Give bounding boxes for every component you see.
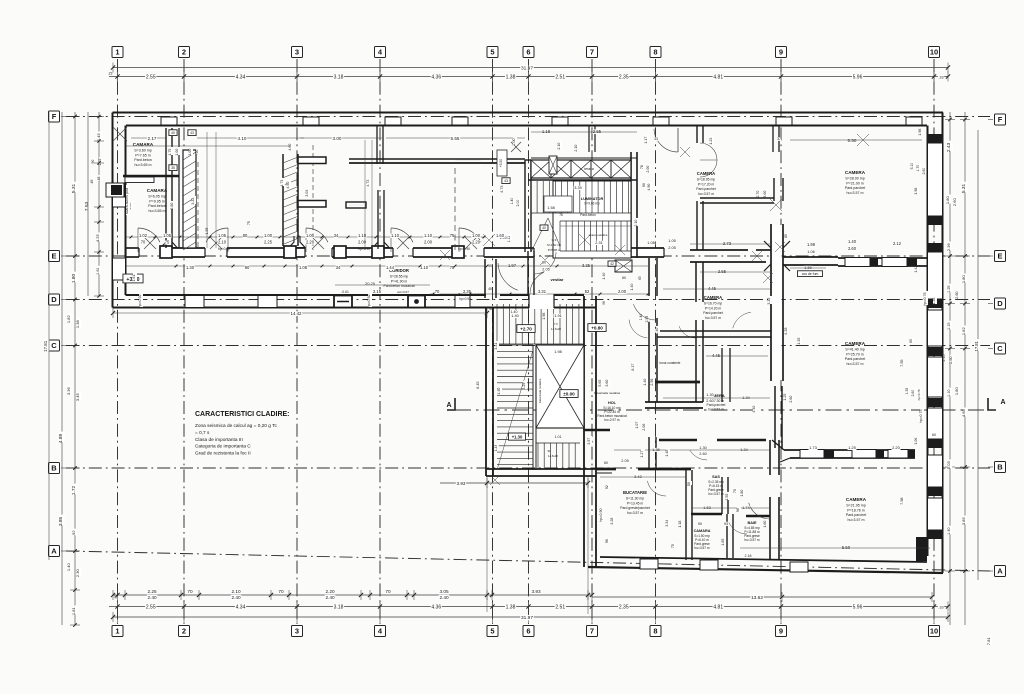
svg-text:2.60: 2.60 [949, 356, 953, 363]
svg-text:-0.61: -0.61 [341, 290, 349, 294]
svg-text:2.00: 2.00 [618, 289, 627, 294]
svg-text:1.17: 1.17 [644, 137, 648, 144]
svg-text:1.15: 1.15 [947, 322, 951, 329]
svg-text:Pard.parchet: Pard.parchet [845, 357, 866, 361]
svg-text:2.15: 2.15 [373, 289, 382, 294]
svg-text:2.20: 2.20 [892, 445, 901, 450]
svg-text:1.40: 1.40 [630, 284, 634, 291]
svg-text:2.25: 2.25 [264, 240, 273, 245]
svg-text:P=13.45 m: P=13.45 m [627, 501, 644, 505]
svg-text:hp=0.90: hp=0.90 [458, 247, 470, 251]
svg-text:1.75: 1.75 [168, 149, 172, 156]
svg-text:3.00: 3.00 [763, 191, 767, 198]
svg-text:2: 2 [182, 627, 186, 636]
svg-text:1.82: 1.82 [66, 315, 71, 324]
svg-text:2.10: 2.10 [557, 143, 561, 150]
svg-text:C: C [51, 341, 57, 350]
svg-text:.90: .90 [195, 150, 199, 155]
svg-text:1.70: 1.70 [916, 165, 920, 172]
svg-text:hu=3.57 m: hu=3.57 m [627, 511, 643, 515]
svg-text:.90: .90 [91, 160, 95, 165]
svg-text:2.20: 2.20 [306, 240, 315, 245]
svg-text:2.31: 2.31 [595, 241, 602, 245]
svg-text:5: 5 [490, 627, 494, 636]
svg-text:+0.80: +0.80 [591, 326, 603, 331]
svg-text:.92: .92 [71, 530, 76, 536]
svg-text:10: 10 [930, 48, 938, 57]
svg-text:31.97: 31.97 [521, 615, 533, 621]
svg-text:1.60: 1.60 [496, 233, 505, 238]
svg-text:Pard.beton: Pard.beton [134, 158, 152, 162]
svg-text:hp=0.90: hp=0.90 [358, 247, 370, 251]
svg-text:2.20: 2.20 [472, 240, 481, 245]
svg-text:1.55: 1.55 [725, 494, 729, 501]
svg-text:cos de fum: cos de fum [802, 272, 819, 276]
svg-text:80: 80 [245, 265, 250, 270]
svg-text:33: 33 [654, 137, 658, 141]
svg-text:1: 1 [115, 48, 119, 57]
svg-text:5: 5 [490, 48, 494, 57]
svg-text:1.40: 1.40 [511, 310, 518, 314]
svg-text:2.51: 2.51 [555, 74, 565, 80]
svg-text:±0.00: ±0.00 [563, 392, 575, 397]
svg-text:31.97: 31.97 [521, 66, 533, 72]
svg-text:3.57: 3.57 [587, 438, 591, 445]
svg-text:balustrada metalica: balustrada metalica [594, 391, 620, 395]
svg-text:3.29: 3.29 [522, 383, 526, 390]
svg-text:A: A [1000, 399, 1005, 406]
svg-text:1.80: 1.80 [961, 275, 966, 284]
svg-text:3.42: 3.42 [634, 474, 643, 479]
svg-text:1.38: 1.38 [506, 604, 516, 610]
svg-text:Pard.parchet: Pard.parchet [845, 186, 866, 190]
svg-text:3.39: 3.39 [574, 186, 581, 190]
svg-text:2.05: 2.05 [621, 459, 628, 463]
svg-text:A: A [446, 402, 451, 409]
svg-text:75: 75 [247, 221, 251, 225]
svg-text:3.85: 3.85 [58, 516, 64, 526]
svg-text:1.80: 1.80 [740, 490, 744, 497]
svg-text:3.33: 3.33 [191, 198, 195, 205]
svg-text:1.06: 1.06 [914, 438, 918, 445]
svg-text:hp=0.78: hp=0.78 [917, 389, 921, 400]
svg-text:P=5.08 m: P=5.08 m [548, 248, 561, 252]
svg-text:2.12: 2.12 [893, 241, 902, 246]
svg-text:1.02: 1.02 [139, 233, 148, 238]
svg-text:1.80: 1.80 [945, 196, 950, 205]
svg-text:3.35: 3.35 [767, 298, 771, 305]
svg-text:1.61: 1.61 [132, 275, 136, 282]
svg-text:5.50: 5.50 [842, 545, 851, 550]
svg-text:4.81: 4.81 [713, 604, 723, 610]
svg-text:40: 40 [542, 226, 546, 230]
svg-text:P=18.76 m: P=18.76 m [847, 508, 864, 512]
svg-text:4.33: 4.33 [784, 327, 788, 334]
svg-text:hp=0.92: hp=0.92 [459, 297, 471, 301]
svg-text:2.60: 2.60 [699, 452, 706, 456]
svg-text:1.18: 1.18 [678, 521, 682, 528]
svg-text:70: 70 [141, 240, 146, 245]
svg-text:9: 9 [779, 48, 783, 57]
svg-text:75: 75 [165, 240, 170, 245]
svg-text:3.28: 3.28 [610, 518, 614, 525]
svg-text:14.6x30: 14.6x30 [548, 454, 558, 458]
svg-text:S=11.30 mp: S=11.30 mp [626, 497, 644, 501]
svg-text:1.10: 1.10 [391, 233, 400, 238]
svg-text:1.10: 1.10 [424, 233, 433, 238]
svg-text:70: 70 [278, 589, 284, 594]
svg-text:CAMERA: CAMERA [704, 295, 722, 300]
svg-text:vestiar: vestiar [551, 277, 564, 282]
svg-text:+3.50: +3.50 [499, 159, 503, 168]
svg-text:17.81: 17.81 [974, 340, 979, 351]
svg-text:7 tr: 7 tr [554, 322, 558, 326]
svg-text:5.10: 5.10 [910, 163, 914, 170]
svg-text:2.40: 2.40 [147, 595, 157, 600]
svg-text:1.40: 1.40 [848, 239, 857, 244]
svg-text:85: 85 [784, 234, 788, 238]
svg-text:80: 80 [243, 233, 248, 238]
svg-text:Pard.gresie/parchet: Pard.gresie/parchet [620, 506, 650, 510]
svg-text:4.60: 4.60 [288, 144, 292, 151]
svg-text:1.11: 1.11 [507, 236, 511, 242]
svg-text:1.40: 1.40 [643, 379, 647, 386]
svg-text:37: 37 [777, 137, 781, 141]
svg-text:Grad de rezistenta la foc II: Grad de rezistenta la foc II [195, 451, 251, 457]
svg-text:34: 34 [334, 233, 339, 238]
svg-text:70: 70 [385, 589, 391, 594]
svg-text:4.90: 4.90 [647, 184, 651, 191]
svg-text:S=28.55 mp: S=28.55 mp [390, 275, 408, 279]
svg-text:2.55: 2.55 [718, 269, 727, 274]
svg-text:F: F [52, 112, 57, 121]
svg-text:Pard.beton: Pard.beton [148, 204, 166, 208]
svg-text:1.08: 1.08 [647, 241, 654, 245]
svg-text:.45: .45 [90, 180, 94, 185]
svg-text:1.40: 1.40 [497, 388, 501, 395]
svg-text:Pard.parchet: Pard.parchet [696, 187, 715, 191]
svg-text:4.50: 4.50 [286, 182, 290, 189]
svg-text:75: 75 [450, 233, 455, 238]
svg-text:2.25: 2.25 [147, 589, 157, 594]
svg-text:90: 90 [698, 522, 702, 526]
svg-text:1.30: 1.30 [699, 446, 706, 450]
svg-text:4.89: 4.89 [58, 433, 64, 443]
svg-text:.23: .23 [108, 72, 113, 76]
svg-text:7: 7 [590, 48, 594, 57]
svg-text:3.18: 3.18 [334, 604, 344, 610]
svg-text:1.25: 1.25 [947, 285, 951, 292]
svg-text:1.01: 1.01 [555, 435, 562, 439]
svg-text:2.60: 2.60 [789, 396, 793, 403]
svg-text:2.60: 2.60 [955, 291, 959, 298]
svg-text:2.60: 2.60 [952, 198, 957, 207]
svg-text:8: 8 [653, 48, 657, 57]
svg-text:13.62: 13.62 [751, 595, 763, 601]
svg-text:8.17: 8.17 [631, 364, 635, 371]
svg-text:7.55: 7.55 [900, 359, 904, 366]
svg-text:90: 90 [642, 183, 646, 187]
svg-text:BAIE: BAIE [747, 521, 757, 525]
svg-text:1.27: 1.27 [640, 451, 644, 458]
svg-text:E: E [997, 252, 1002, 261]
svg-text:2.36: 2.36 [946, 243, 951, 252]
svg-text:3: 3 [295, 48, 299, 57]
svg-text:CAMERA: CAMERA [845, 341, 866, 346]
svg-text:S=6.05 mp: S=6.05 mp [148, 195, 165, 199]
svg-text:7.53: 7.53 [84, 201, 90, 211]
svg-text:4.40: 4.40 [752, 406, 756, 413]
svg-text:3.93: 3.93 [531, 589, 541, 594]
svg-text:60: 60 [622, 276, 626, 280]
svg-text:G:9: G:9 [552, 238, 557, 242]
svg-text:70: 70 [733, 489, 737, 493]
svg-text:4.36: 4.36 [431, 74, 441, 80]
svg-text:2.55: 2.55 [593, 129, 602, 134]
svg-text:3.45: 3.45 [75, 393, 80, 402]
svg-text:2.60: 2.60 [922, 168, 926, 175]
svg-text:6: 6 [526, 48, 530, 57]
svg-text:7: 7 [590, 627, 594, 636]
svg-text:1.06: 1.06 [807, 250, 814, 254]
svg-text:HOL: HOL [608, 401, 617, 405]
svg-text:S=3.60 mp: S=3.60 mp [134, 149, 151, 153]
svg-text:78: 78 [640, 165, 644, 169]
svg-text:5.96: 5.96 [853, 74, 863, 80]
svg-text:hp=0.90: hp=0.90 [599, 509, 603, 522]
svg-text:52: 52 [585, 289, 590, 294]
svg-text:hu=3.57 m: hu=3.57 m [846, 362, 863, 366]
svg-text:1.00: 1.00 [175, 149, 179, 156]
svg-text:terasa: terasa [584, 167, 594, 171]
svg-text:S=41.40 mp: S=41.40 mp [845, 348, 864, 352]
svg-text:P=9.95 m: P=9.95 m [149, 199, 164, 203]
svg-text:1.30: 1.30 [186, 265, 195, 270]
svg-text:2.70: 2.70 [756, 191, 760, 198]
svg-text:60: 60 [604, 461, 608, 465]
svg-text:S=18.95 mp: S=18.95 mp [697, 178, 715, 182]
svg-text:hu=3.57 m: hu=3.57 m [708, 492, 723, 496]
svg-text:1.25: 1.25 [783, 394, 787, 401]
svg-text:Pard.parchet: Pard.parchet [846, 513, 867, 517]
svg-text:1.91: 1.91 [554, 313, 562, 318]
svg-text:3.00: 3.00 [333, 136, 342, 141]
svg-text:3.60: 3.60 [605, 380, 609, 387]
svg-text:2.35: 2.35 [619, 74, 629, 80]
svg-text:3.85: 3.85 [961, 517, 966, 526]
svg-text:1.58: 1.58 [547, 206, 554, 210]
svg-text:1.81: 1.81 [71, 607, 76, 616]
svg-text:2.00: 2.00 [358, 240, 367, 245]
svg-text:90: 90 [547, 449, 551, 453]
svg-text:B: B [51, 464, 57, 473]
svg-text:3: 3 [295, 627, 299, 636]
svg-text:2.51: 2.51 [555, 604, 565, 610]
svg-text:35: 35 [171, 166, 175, 170]
svg-text:S=9.66 mp: S=9.66 mp [584, 202, 600, 206]
svg-text:3.93: 3.93 [457, 481, 466, 486]
svg-text:1.05: 1.05 [218, 233, 227, 238]
svg-text:1.07: 1.07 [635, 422, 639, 429]
svg-text:scara acces pod: scara acces pod [125, 188, 129, 214]
svg-text:hp=0.92: hp=0.92 [367, 295, 371, 308]
svg-text:hu=3.65 m: hu=3.65 m [134, 163, 151, 167]
svg-text:1.40: 1.40 [655, 328, 659, 335]
svg-text:P=7.65 m: P=7.65 m [135, 153, 150, 157]
svg-text:SAS: SAS [712, 475, 720, 479]
svg-text:1.00: 1.00 [188, 149, 192, 156]
svg-text:75: 75 [671, 544, 675, 548]
svg-text:4.25: 4.25 [95, 234, 100, 243]
svg-text:3.31: 3.31 [494, 343, 498, 350]
svg-text:9: 9 [779, 627, 783, 636]
svg-text:1.05: 1.05 [668, 238, 676, 243]
svg-text:CARACTERISTICI CLADIRE:: CARACTERISTICI CLADIRE: [195, 411, 290, 418]
svg-text:50: 50 [687, 482, 691, 486]
svg-text:10: 10 [930, 627, 938, 636]
svg-text:1.40: 1.40 [510, 198, 514, 205]
svg-text:60: 60 [932, 433, 936, 437]
svg-text:65: 65 [638, 276, 642, 280]
svg-text:1.23: 1.23 [709, 138, 713, 145]
svg-text:96: 96 [605, 539, 609, 543]
svg-text:+1.30: +1.30 [512, 434, 523, 439]
svg-text:4.36: 4.36 [431, 604, 441, 610]
svg-text:4.45: 4.45 [712, 353, 721, 358]
svg-text:hu=3.57 m: hu=3.57 m [744, 538, 759, 542]
svg-text:1.25: 1.25 [848, 445, 857, 450]
svg-text:P=25.70 m: P=25.70 m [846, 352, 863, 356]
svg-text:.33: .33 [938, 75, 943, 79]
svg-text:1.72: 1.72 [71, 485, 77, 495]
svg-text:1.82: 1.82 [961, 327, 966, 336]
svg-text:F: F [998, 115, 1003, 124]
svg-text:1: 1 [115, 627, 119, 636]
svg-text:Pard.beton: Pard.beton [580, 213, 596, 217]
svg-text:1.10: 1.10 [947, 389, 951, 396]
svg-text:CAMERA: CAMERA [846, 497, 867, 502]
svg-text:1.18: 1.18 [542, 129, 551, 134]
svg-text:2.30: 2.30 [75, 569, 80, 578]
svg-text:42: 42 [610, 262, 614, 266]
svg-text:1.60: 1.60 [763, 521, 767, 528]
svg-text:P=14.20 m: P=14.20 m [705, 306, 722, 310]
svg-text:1.00: 1.00 [512, 138, 516, 145]
svg-text:B: B [997, 463, 1003, 472]
svg-text:hu=3.57 m: hu=3.57 m [708, 407, 724, 411]
svg-text:3.18: 3.18 [334, 74, 344, 80]
svg-text:2.60: 2.60 [911, 390, 915, 397]
svg-text:4.73: 4.73 [500, 185, 504, 192]
svg-text:CAMERA: CAMERA [697, 171, 715, 176]
svg-text:65: 65 [909, 339, 913, 343]
svg-text:CAMERA: CAMERA [845, 170, 866, 175]
svg-text:1.40: 1.40 [947, 527, 951, 534]
svg-text:1.98: 1.98 [914, 188, 918, 195]
svg-text:2.55: 2.55 [146, 604, 156, 610]
svg-text:1.38: 1.38 [75, 320, 80, 329]
svg-text:1.80: 1.80 [71, 273, 77, 283]
svg-text:2.00: 2.00 [646, 166, 650, 173]
svg-text:D: D [51, 295, 57, 304]
svg-text:1.35: 1.35 [932, 298, 936, 305]
svg-text:76: 76 [559, 213, 563, 217]
svg-text:3.31: 3.31 [538, 289, 547, 294]
svg-text:96: 96 [736, 508, 740, 512]
svg-text:5.65: 5.65 [598, 380, 602, 387]
svg-text:Categoria de importanta C: Categoria de importanta C [195, 444, 251, 450]
svg-text:1.43: 1.43 [494, 445, 498, 451]
svg-text:1.65: 1.65 [721, 539, 725, 546]
svg-text:2.17: 2.17 [148, 136, 157, 141]
svg-text:1.35: 1.35 [905, 388, 909, 395]
svg-text:1.98: 1.98 [807, 242, 816, 247]
svg-text:5.55: 5.55 [451, 136, 460, 141]
svg-text:2.60: 2.60 [848, 246, 857, 251]
svg-text:2.10: 2.10 [218, 240, 227, 245]
svg-text:2.05: 2.05 [542, 268, 549, 272]
svg-text:3.05: 3.05 [439, 589, 449, 594]
svg-text:am=3.67: am=3.67 [397, 290, 409, 294]
svg-text:40: 40 [171, 131, 175, 135]
svg-text:3.03: 3.03 [305, 190, 309, 197]
svg-text:2.06: 2.06 [642, 424, 646, 431]
svg-text:14.6x30: 14.6x30 [551, 327, 561, 331]
svg-text:2.55: 2.55 [146, 74, 156, 80]
svg-text:A: A [51, 547, 57, 556]
svg-text:43: 43 [504, 179, 508, 183]
svg-text:2.10: 2.10 [634, 220, 638, 227]
svg-text:1.98: 1.98 [918, 129, 922, 136]
svg-text:2.40: 2.40 [325, 595, 335, 600]
svg-text:+2.70: +2.70 [520, 327, 532, 332]
svg-text:4.10: 4.10 [238, 136, 247, 141]
svg-text:2.56: 2.56 [650, 379, 654, 386]
svg-text:P=21.00 m: P=21.00 m [846, 181, 863, 185]
svg-text:7.58: 7.58 [900, 497, 904, 504]
svg-text:.33: .33 [938, 605, 943, 609]
svg-text:2.40: 2.40 [231, 595, 241, 600]
svg-text:hu=2.97 m: hu=2.97 m [604, 418, 619, 422]
svg-text:34: 34 [336, 265, 341, 270]
svg-text:P=41.90 m: P=41.90 m [391, 279, 408, 283]
svg-text:2.40: 2.40 [439, 595, 449, 600]
svg-text:scara metalica: scara metalica [589, 233, 608, 237]
svg-text:3.36: 3.36 [66, 387, 71, 396]
svg-text:8: 8 [653, 627, 657, 636]
svg-text:1.40: 1.40 [602, 273, 606, 280]
svg-text:1.38: 1.38 [506, 74, 516, 80]
svg-text:E: E [51, 252, 56, 261]
svg-text:70: 70 [187, 589, 193, 594]
svg-text:1.08: 1.08 [299, 265, 308, 270]
svg-text:hu=3.57 m: hu=3.57 m [846, 191, 863, 195]
svg-text:3.35: 3.35 [582, 263, 591, 268]
svg-text:6.45: 6.45 [476, 381, 480, 388]
svg-text:hp=0.75: hp=0.75 [919, 410, 923, 423]
svg-text:98: 98 [602, 301, 606, 305]
svg-text:2.00: 2.00 [424, 240, 433, 245]
svg-text:= 0,7 s: = 0,7 s [195, 430, 210, 436]
svg-text:D: D [997, 299, 1003, 308]
svg-text:3.34: 3.34 [665, 520, 669, 527]
svg-text:4.73: 4.73 [280, 180, 284, 187]
svg-text:hu=3.57 m: hu=3.57 m [847, 518, 864, 522]
svg-text:1.97: 1.97 [508, 263, 517, 268]
svg-text:Pard.parchet: Pard.parchet [703, 311, 722, 315]
svg-text:1.10: 1.10 [358, 233, 367, 238]
svg-text:S=1.50 mp: S=1.50 mp [547, 243, 561, 247]
